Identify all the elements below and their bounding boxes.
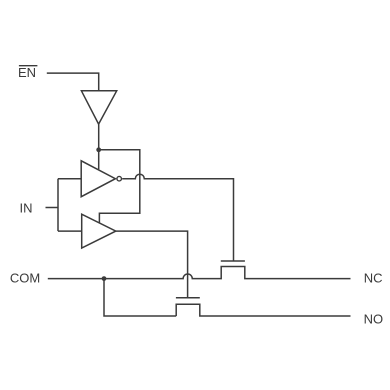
- inverter U2 output bubble: [117, 176, 122, 181]
- wire U3 output to Q2 gate: [116, 231, 188, 298]
- net IN label: [20, 200, 33, 215]
- wire IN to U2 input: [58, 178, 81, 180]
- net COM label: [10, 270, 40, 285]
- svg-text:COM: COM: [10, 270, 40, 285]
- wire IN to U3 input: [58, 230, 82, 232]
- svg-text:NO: NO: [364, 311, 384, 326]
- wire IN stub: [46, 207, 59, 209]
- transistor Q1 gate bar: [221, 260, 245, 262]
- svg-text:EN: EN: [18, 65, 36, 80]
- wire U1 output to node A: [98, 124, 100, 150]
- buffer U3: [82, 214, 116, 248]
- buffer U1 (enable buffer, pointing down): [81, 91, 116, 124]
- wire COM to NC with transistor Q1 channel and hop over Q2 gate wire: [48, 267, 351, 279]
- net EN label: [18, 65, 36, 80]
- wire node A to inverter U2 enable: [98, 150, 100, 170]
- transistor Q2 channel and wire to NO: [176, 304, 350, 316]
- wire IN vertical branch: [57, 179, 59, 231]
- svg-text:IN: IN: [20, 200, 33, 215]
- inverter U2: [81, 161, 115, 197]
- wire node B down to NO branch: [104, 279, 176, 316]
- transistor Q2 gate bar: [176, 297, 200, 299]
- wire EN to buffer U1 input: [47, 73, 99, 91]
- net NO label: [364, 311, 384, 326]
- wire U2 output to Q1 gate (hop over crossing wire): [122, 174, 233, 261]
- wire node A to buffer U3 enable: [99, 150, 140, 223]
- EN overline: [19, 65, 38, 67]
- svg-text:NC: NC: [364, 270, 383, 285]
- node A junction: [96, 147, 101, 152]
- node B junction on COM: [102, 276, 107, 281]
- net NC label: [364, 270, 383, 285]
